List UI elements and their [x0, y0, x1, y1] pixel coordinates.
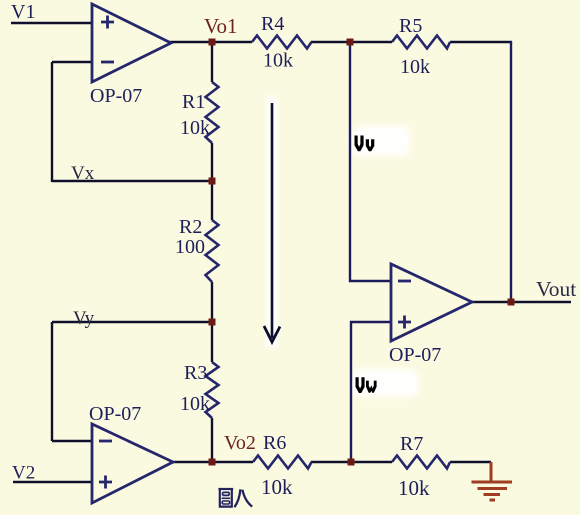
wire Vu vertical to U3 inverting input: [350, 41, 391, 281]
wire Vy to R3: [211, 322, 213, 362]
svg-text:Vx: Vx: [71, 163, 95, 184]
node Vo1 junction dot: [209, 39, 216, 46]
wire U2 inverting input: [52, 440, 92, 442]
white erase patch behind Vw label: [352, 369, 418, 397]
svg-text:10k: 10k: [400, 56, 430, 78]
wire U2 output to R6: [172, 461, 253, 463]
op-amp U3 plus input symbol: [398, 316, 411, 329]
svg-text:OP-07: OP-07: [89, 403, 141, 425]
op-amp U3 triangle: [391, 264, 472, 341]
wire R7 to ground: [450, 461, 491, 463]
wire R4 to junction: [311, 41, 392, 43]
wire Vx horizontal: [52, 180, 212, 182]
svg-text:10k: 10k: [398, 476, 430, 500]
svg-text:OP-07: OP-07: [389, 344, 441, 366]
wire Vo1 down to R1: [211, 42, 213, 82]
resistor R5 10k: [392, 36, 450, 49]
label figure caption 圖八: [218, 489, 252, 507]
svg-text:10k: 10k: [261, 475, 293, 499]
svg-text:R6: R6: [263, 432, 286, 454]
svg-text:10k: 10k: [180, 117, 210, 139]
node Vx junction dot: [209, 178, 216, 185]
white erase patch behind Vu label: [352, 126, 410, 156]
node Vy junction dot: [209, 319, 216, 326]
svg-text:OP-07: OP-07: [90, 85, 142, 107]
svg-text:R4: R4: [261, 13, 284, 35]
svg-text:R3: R3: [184, 362, 207, 384]
wire Vy horizontal: [52, 321, 212, 323]
wire V1 input: [11, 22, 92, 24]
op-amp U3 minus input symbol: [398, 280, 411, 283]
current direction arrow: [271, 103, 274, 338]
svg-text:R5: R5: [399, 15, 422, 37]
wire right vertical down to output node: [510, 41, 512, 302]
wire V2 input: [13, 481, 92, 483]
white halo behind arrow: [266, 96, 278, 348]
wire Vx to R2: [211, 182, 213, 220]
node Vw junction dot: [348, 459, 355, 466]
svg-text:Vo1: Vo1: [204, 14, 237, 38]
resistor R2 100: [206, 220, 219, 282]
wire U1 inverting input: [52, 61, 92, 63]
wire U1 output to Vo1: [170, 41, 252, 43]
op-amp U1 minus input symbol: [101, 61, 114, 64]
wire Vout: [511, 301, 571, 303]
label Vu: [355, 136, 375, 152]
op-amp U2 plus input symbol: [99, 476, 112, 489]
wire U1 feedback vertical: [51, 62, 53, 182]
wire R3 to Vo2: [211, 418, 213, 462]
op-amp U1 plus input symbol: [101, 16, 114, 29]
svg-text:10k: 10k: [180, 393, 210, 415]
svg-text:100: 100: [175, 236, 205, 258]
op-amp U2 minus input symbol: [99, 440, 112, 443]
op-amp U1 triangle: [92, 4, 171, 82]
op-amp U2 triangle: [92, 424, 173, 503]
svg-text:Vo2: Vo2: [224, 432, 256, 454]
resistor R3 10k: [206, 362, 219, 418]
resistor R7 10k: [392, 456, 450, 469]
resistor R4 10k: [252, 36, 312, 49]
svg-text:R1: R1: [182, 91, 205, 113]
wire R6 to Vw node: [311, 461, 392, 463]
ground symbol: [472, 462, 513, 500]
svg-text:R2: R2: [179, 216, 202, 238]
resistor R1 10k: [206, 82, 219, 143]
node Vu junction dot: [347, 39, 354, 46]
wire U2 feedback vertical: [51, 322, 53, 441]
svg-text:Vy: Vy: [73, 308, 95, 329]
svg-text:R7: R7: [400, 433, 423, 455]
svg-text:V1: V1: [11, 1, 35, 23]
wire U3 output: [471, 301, 511, 303]
wire Vw vertical to U3 non-inverting input: [351, 322, 391, 462]
label Vw: [356, 377, 377, 393]
node Vout junction dot: [508, 299, 515, 306]
wire R5 to right corner: [450, 41, 512, 43]
node Vo2 junction dot: [209, 459, 216, 466]
resistor R6 10k: [253, 456, 312, 469]
svg-text:V2: V2: [12, 463, 35, 484]
svg-text:Vout: Vout: [536, 277, 576, 301]
wire R1 to Vx: [211, 143, 213, 182]
svg-text:10k: 10k: [263, 50, 293, 72]
wire R2 to Vy: [211, 282, 213, 322]
